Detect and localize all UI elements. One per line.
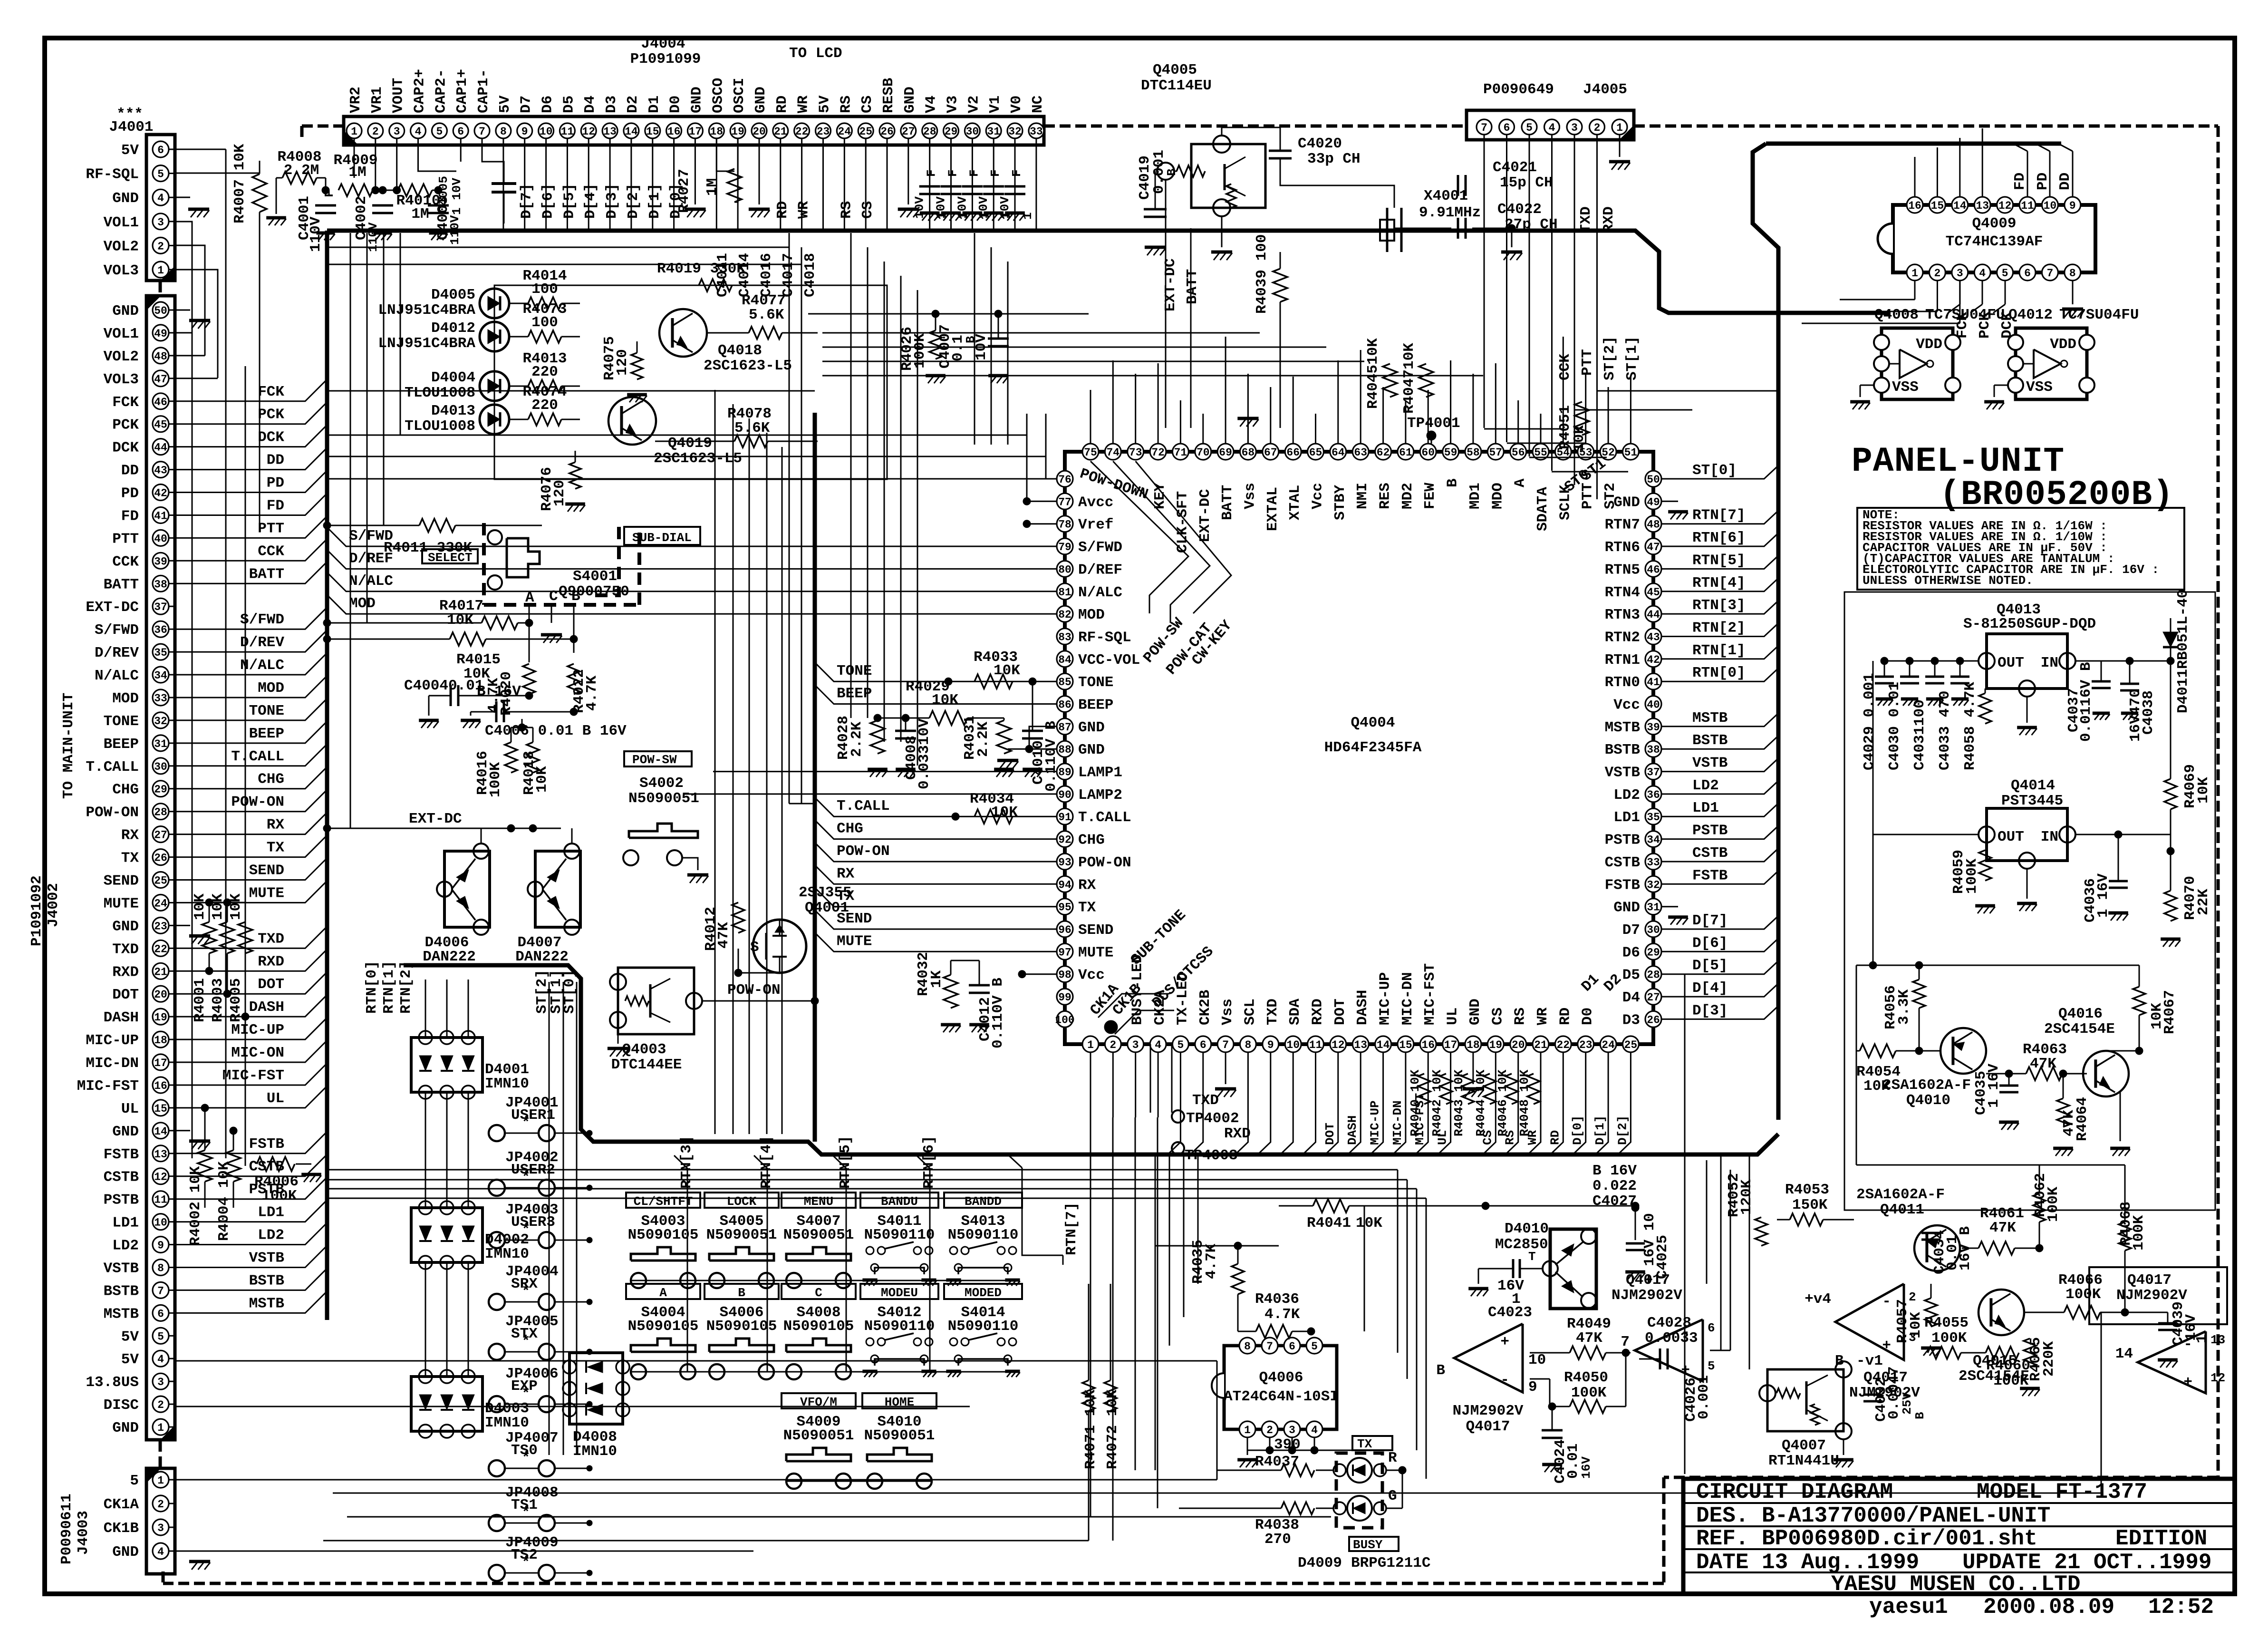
J4004 pin 12 D4 (581, 123, 596, 138)
svg-text:31: 31 (987, 126, 1000, 138)
wire net RTN[2] (1661, 623, 1778, 637)
svg-text:TLOU1008: TLOU1008 (405, 385, 475, 401)
svg-text:UL: UL (267, 1090, 284, 1107)
svg-text:F: F (1010, 169, 1024, 177)
svg-text:J4004: J4004 (641, 36, 685, 52)
svg-text:10: 10 (1286, 1039, 1300, 1051)
wire J4004 drop (673, 138, 675, 229)
wire J4005 drop (1574, 135, 1575, 485)
svg-text:38: 38 (154, 578, 167, 591)
svg-text:12: 12 (1998, 200, 2012, 212)
svg-text:F: F (988, 169, 1003, 177)
svg-text:GND: GND (688, 87, 705, 113)
Q4004 pin 90 (1057, 786, 1073, 802)
svg-text:POW-SW: POW-SW (632, 753, 677, 767)
svg-text:HD64F2345FA: HD64F2345FA (1324, 739, 1422, 756)
wire net LD1 (1661, 803, 1778, 816)
svg-text:TO LCD: TO LCD (789, 45, 842, 62)
svg-text:220: 220 (531, 364, 558, 380)
J4002 pin 9 LD2 (153, 1237, 169, 1253)
svg-text:LD1: LD1 (1692, 800, 1719, 816)
svg-text:68: 68 (1242, 446, 1255, 459)
wire J4004 drop (887, 138, 888, 229)
svg-text:30: 30 (154, 761, 167, 773)
ground Q4016 emitter (2120, 1091, 2121, 1141)
svg-text:11: 11 (154, 1194, 167, 1206)
svg-text:MOD: MOD (258, 680, 284, 697)
svg-text:47K: 47K (715, 922, 732, 949)
svg-text:5V: 5V (121, 1329, 139, 1345)
svg-text:18: 18 (1467, 1039, 1480, 1051)
Q4006 pin 2 (1262, 1421, 1278, 1437)
wire CAP2+ (418, 138, 457, 171)
wire J4004 drop (652, 138, 653, 229)
svg-text:-: - (1500, 1372, 1509, 1388)
svg-text:Q4018: Q4018 (718, 342, 762, 359)
svg-text:MIC-FST: MIC-FST (1422, 963, 1438, 1025)
wire Q4004 pin 73 up (1135, 374, 1136, 444)
svg-text:1: 1 (1021, 212, 1035, 220)
svg-text:7: 7 (1621, 1334, 1630, 1350)
svg-text:D6: D6 (1622, 944, 1640, 961)
svg-text:D4013: D4013 (431, 403, 475, 419)
J4002 pin 15 UL (153, 1100, 169, 1116)
svg-text:5.6K: 5.6K (749, 307, 784, 323)
Q4006 pin 6 (1284, 1338, 1300, 1354)
wire net D/REV to left bus (175, 630, 327, 652)
svg-text:98: 98 (1058, 969, 1071, 981)
transistor Q4003 DTC144EE (618, 968, 694, 1034)
wire J4004 drop (972, 138, 973, 229)
svg-text:Q4017: Q4017 (2127, 1272, 2171, 1289)
Q4009 pin 2 (1929, 264, 1945, 281)
svg-text:D4004: D4004 (431, 369, 475, 386)
wire net TX (815, 888, 1057, 907)
switch S4007 MENU (782, 1193, 856, 1208)
svg-text:BATT: BATT (1184, 269, 1201, 304)
svg-text:BANDU: BANDU (881, 1194, 918, 1209)
wire net MOD to left bus (175, 676, 327, 698)
svg-text:D[3]: D[3] (604, 184, 620, 219)
svg-text:D/REV: D/REV (240, 634, 284, 651)
svg-text:0.03310V: 0.03310V (916, 718, 933, 789)
wire net SEND (815, 910, 1057, 929)
svg-text:14: 14 (1377, 1039, 1390, 1051)
svg-text:1 10V: 1 10V (450, 178, 464, 215)
svg-text:16: 16 (154, 1080, 167, 1092)
J4004 pin 14 D2 (624, 123, 639, 138)
Q4004 pin 66 (1285, 444, 1301, 460)
wire J4005 drop (1551, 135, 1553, 471)
svg-text:FD: FD (267, 498, 284, 514)
wire net S/FWD (327, 527, 1057, 546)
svg-text:LNJ951C4BRA: LNJ951C4BRA (378, 302, 475, 319)
svg-text:28: 28 (923, 126, 936, 138)
svg-text:B: B (1436, 1362, 1445, 1379)
svg-text:16V: 16V (1579, 1456, 1593, 1479)
svg-text:94: 94 (1058, 879, 1071, 891)
Q4004 pin 34 (1645, 831, 1661, 847)
wire net TX to left bus (175, 835, 327, 857)
Q4004 pin 3 (1128, 1036, 1144, 1052)
J4004 pin 9 D7 (517, 123, 532, 138)
Q4004 pin 21 (1533, 1036, 1549, 1052)
wire power rail opamp (1402, 1205, 1635, 1207)
svg-text:N/ALC: N/ALC (1078, 584, 1122, 601)
svg-text:B 16V: B 16V (477, 683, 521, 700)
ground J4003 (175, 1551, 190, 1552)
svg-text:C4031100: C4031100 (1911, 699, 1928, 770)
svg-text:S4001: S4001 (573, 568, 617, 585)
svg-text:MSTB: MSTB (249, 1295, 284, 1312)
Q4004 pin 91 (1057, 808, 1073, 824)
diode bridge D4007 DAN222 (535, 851, 580, 927)
svg-text:RT1N441U: RT1N441U (1768, 1453, 1839, 1469)
svg-text:2: 2 (157, 1399, 164, 1411)
svg-text:10: 10 (540, 126, 553, 138)
svg-text:23: 23 (1579, 1039, 1592, 1051)
wire J4001 5V (175, 149, 226, 150)
resistor R4007 10K (252, 174, 267, 212)
switch S4003 CL/SHTFT (626, 1193, 700, 1208)
svg-text:BSTB: BSTB (1605, 742, 1640, 758)
svg-text:TO MAIN-UNIT: TO MAIN-UNIT (60, 693, 77, 799)
svg-text:RS: RS (838, 96, 854, 113)
svg-text:76: 76 (1058, 474, 1071, 486)
svg-text:MDO: MDO (1489, 483, 1506, 509)
svg-text:MIC-DN: MIC-DN (1390, 1100, 1405, 1145)
resistor R4001 10K (202, 922, 216, 953)
svg-text:100K: 100K (2065, 1286, 2101, 1303)
Q4004 pin 38 (1645, 741, 1661, 757)
svg-text:NJM2902V: NJM2902V (1612, 1287, 1682, 1304)
top right bus (heavy) (1766, 142, 2061, 146)
svg-text:D4012: D4012 (431, 320, 475, 337)
svg-text:*: * (521, 1504, 531, 1521)
ground Q4008 (1860, 385, 1874, 386)
J4002 pin 24 MUTE (153, 894, 169, 911)
svg-text:25V: 25V (1900, 1392, 1914, 1415)
svg-text:D[2]: D[2] (1615, 1115, 1630, 1145)
svg-text:Q4007: Q4007 (1782, 1437, 1826, 1454)
svg-text:RX: RX (121, 827, 139, 844)
svg-text:BEEP: BEEP (104, 736, 139, 753)
svg-text:PSTB: PSTB (1605, 832, 1640, 849)
svg-text:42: 42 (1647, 654, 1660, 666)
wire Q4004 pin 60 up (1428, 390, 1429, 444)
wire Q4004 pin 57 up (1495, 363, 1496, 444)
svg-text:IMN10: IMN10 (485, 1246, 529, 1262)
svg-text:1: 1 (1911, 267, 1918, 280)
wire net RTN[4] (1661, 578, 1778, 592)
svg-text:TXD: TXD (112, 941, 139, 958)
J4002 pin 14 GND (153, 1123, 169, 1139)
svg-text:LAMP2: LAMP2 (1078, 787, 1122, 804)
svg-text:VR1: VR1 (369, 87, 386, 113)
Q4004 pin 54 (1555, 444, 1571, 460)
capacitor C4023 1 16V T (1512, 1259, 1515, 1278)
svg-text:RTN6: RTN6 (1605, 539, 1640, 556)
wire net CSTB (1661, 848, 1778, 862)
Q4004 pin 44 (1645, 606, 1661, 622)
svg-text:R4067: R4067 (2162, 990, 2178, 1034)
svg-text:Q4009: Q4009 (1972, 215, 2016, 232)
svg-text:MSTB: MSTB (1605, 719, 1640, 736)
svg-text:120K: 120K (1738, 1179, 1755, 1215)
svg-text:PSTB: PSTB (104, 1192, 139, 1209)
junction dots misc (323, 522, 331, 529)
Q4004 pin 5 (1172, 1036, 1188, 1052)
svg-text:CHG: CHG (837, 821, 863, 837)
svg-text:MODEU: MODEU (881, 1286, 918, 1300)
svg-text:9: 9 (2069, 200, 2076, 212)
Q4004 pin 23 (1578, 1036, 1594, 1052)
svg-text:DOT: DOT (1323, 1123, 1337, 1145)
Q4004 pin 8 (1240, 1036, 1256, 1052)
resistor R4044 10K (1484, 1074, 1496, 1104)
svg-text:RTN3: RTN3 (1605, 607, 1640, 623)
J4002 pin 47 VOL3 (153, 370, 169, 387)
svg-text:UPDATE 21 OCT..1999: UPDATE 21 OCT..1999 (1962, 1550, 2212, 1575)
svg-text:XTAL: XTAL (1287, 485, 1303, 520)
wire net PSTB to left bus (175, 1177, 327, 1199)
svg-text:D[6]: D[6] (1692, 935, 1728, 951)
svg-text:N5090051: N5090051 (783, 1227, 854, 1243)
svg-text:42: 42 (154, 487, 167, 500)
J4002 pin 42 PD (153, 485, 169, 501)
svg-text:47K: 47K (1989, 1220, 2016, 1236)
svg-text:C4029 0.001: C4029 0.001 (1861, 673, 1878, 770)
svg-text:4: 4 (1155, 1039, 1161, 1051)
wire J4001 VOL3 (175, 270, 218, 378)
svg-text:120: 120 (614, 349, 631, 376)
wire Q4004 pin 74 up (1112, 360, 1114, 444)
svg-text:C4030 0.01: C4030 0.01 (1886, 682, 1903, 770)
resistor R4041 10K (1313, 1199, 1349, 1212)
J4002 pin 46 FCK (153, 393, 169, 409)
svg-text:IN: IN (2041, 829, 2058, 845)
svg-text:6: 6 (157, 144, 164, 156)
switch S4013 BANDD (944, 1193, 1022, 1208)
svg-text:4: 4 (157, 192, 164, 204)
svg-text:17: 17 (154, 1057, 167, 1069)
svg-text:5: 5 (436, 126, 443, 138)
svg-text:R4040 10K: R4040 10K (1408, 1069, 1422, 1136)
svg-text:PD: PD (121, 485, 139, 502)
svg-text:R4019 330K: R4019 330K (657, 261, 745, 277)
svg-text:VR2: VR2 (347, 87, 364, 113)
transistor Q4010 2SA1602A-F (1940, 1028, 1986, 1074)
svg-text:MSTB: MSTB (1692, 710, 1728, 727)
switch S4010 HOME (862, 1393, 936, 1408)
svg-text:MIC-ON: MIC-ON (231, 1045, 284, 1061)
svg-text:S: S (750, 939, 759, 956)
svg-text:VDD: VDD (2050, 336, 2076, 353)
svg-text:R4055: R4055 (1924, 1315, 1969, 1331)
svg-text:10K: 10K (447, 612, 473, 629)
wire Q4004 pin 12 down (1326, 1052, 1338, 1154)
svg-text:Vss: Vss (1242, 483, 1258, 509)
svg-text:TXD: TXD (1578, 206, 1594, 233)
svg-text:10: 10 (154, 1217, 167, 1229)
svg-text:DTC144EE: DTC144EE (611, 1057, 682, 1073)
J4005 pin 5 (1522, 119, 1537, 135)
svg-text:220: 220 (531, 397, 558, 414)
wire J4004 drop (545, 138, 547, 229)
svg-text:100: 100 (1055, 1014, 1074, 1026)
svg-text:VOUT: VOUT (390, 78, 407, 113)
svg-text:A: A (659, 1286, 667, 1300)
svg-text:2: 2 (372, 126, 379, 138)
svg-text:LD2: LD2 (1692, 777, 1719, 794)
wire Q4016 collector up (2106, 1050, 2139, 1052)
svg-text:30: 30 (1647, 924, 1660, 936)
svg-text:V2: V2 (965, 96, 982, 113)
svg-text:RTN0: RTN0 (1605, 674, 1640, 691)
svg-text:FSTB: FSTB (1605, 877, 1640, 893)
Q4004 pin 11 (1308, 1036, 1324, 1052)
svg-text:LD1: LD1 (1613, 809, 1640, 826)
wire net MIC-FST to left bus (175, 1063, 327, 1085)
svg-text:1: 1 (1244, 1424, 1251, 1436)
svg-text:43: 43 (1647, 631, 1660, 644)
Q4009 pin 4 (1974, 264, 1990, 281)
wire net DCK to left bus (175, 425, 327, 447)
svg-text:R4043 10K: R4043 10K (1452, 1069, 1466, 1136)
svg-text:T: T (1528, 1250, 1536, 1264)
wire net CSTB to left bus (175, 1154, 327, 1176)
Q4009 pin 3 (1952, 264, 1968, 281)
svg-text:D[3]: D[3] (1692, 1002, 1728, 1019)
dashed boundary bottom (163, 1582, 1664, 1585)
wire net RTN[7] (1661, 511, 1778, 524)
svg-text:Q4019: Q4019 (668, 435, 712, 452)
svg-text:13: 13 (603, 126, 617, 138)
wire Q4004 pin 9 down (1258, 1052, 1271, 1154)
J4004 pin 29 V3 (944, 123, 959, 138)
svg-text:DASH: DASH (1354, 990, 1371, 1025)
wire net PSTB (1661, 826, 1778, 839)
wire J4004 drop (780, 138, 781, 229)
right signal bus (heavy) (1753, 144, 1778, 1120)
wire Q4004 pin 5 down (1168, 1052, 1180, 1154)
wire net TONE to left bus (175, 698, 327, 720)
svg-text:TP4003: TP4003 (1185, 1147, 1238, 1164)
switch S4014 MODED (944, 1284, 1022, 1299)
J4004 pin 24 RS (837, 123, 852, 138)
capacitor C4010 0.1 10V B (1022, 730, 1043, 732)
resistor R4005 10K (238, 922, 252, 953)
svg-text:CAP2+: CAP2+ (412, 69, 428, 113)
svg-text:D[6]: D[6] (540, 184, 557, 219)
svg-text:T.CALL: T.CALL (1078, 809, 1131, 826)
svg-text:R4044 10K: R4044 10K (1474, 1069, 1488, 1136)
Q4004 pin 80 (1057, 561, 1073, 577)
capacitor C4012 0.1 10V B (969, 984, 990, 987)
LED indicator block D4009 (1336, 1453, 1382, 1528)
svg-text:29: 29 (945, 126, 958, 138)
wire net MIC-ON to left bus (175, 1040, 327, 1062)
wire net FSTB to left bus (175, 1132, 327, 1154)
svg-text:100K: 100K (2131, 1215, 2147, 1251)
svg-text:TXD: TXD (1264, 999, 1281, 1025)
svg-text:DOT: DOT (258, 976, 284, 993)
svg-text:77: 77 (1058, 496, 1071, 508)
svg-text:RD: RD (1557, 1008, 1573, 1025)
svg-text:SELECT: SELECT (428, 551, 473, 565)
Q4004 pin 51 (1622, 444, 1639, 460)
svg-text:D7: D7 (1622, 922, 1640, 939)
switch S4004 A (626, 1284, 700, 1299)
svg-text:R4004 10K: R4004 10K (216, 1161, 232, 1241)
Q4009 pin 10 (2042, 197, 2058, 213)
connector J4003 (146, 1468, 175, 1574)
svg-text:STBY: STBY (1332, 485, 1349, 520)
svg-text:Q4017: Q4017 (1466, 1418, 1510, 1435)
svg-text:D[7]: D[7] (519, 184, 535, 219)
svg-text:33: 33 (1030, 126, 1043, 138)
J4003 pin 2 CK1A (153, 1495, 169, 1512)
svg-text:25: 25 (1624, 1039, 1638, 1051)
svg-text:R4058 4.7K: R4058 4.7K (1962, 682, 1978, 770)
Q4004 pin 49 (1645, 493, 1661, 509)
wire J4004 drop (844, 138, 845, 229)
Q4004 pin 63 (1352, 444, 1369, 460)
wire net MSTB (1661, 713, 1778, 727)
svg-text:100K: 100K (1571, 1385, 1607, 1401)
svg-text:MIC-FST: MIC-FST (77, 1078, 139, 1095)
Q4004 pin 94 (1057, 876, 1073, 892)
svg-text:PTT: PTT (1579, 349, 1596, 376)
wire J4005 drop (1484, 135, 1485, 428)
svg-text:N5090051: N5090051 (628, 790, 699, 807)
capacitor C4020 33p CH (1269, 150, 1292, 152)
svg-text:7: 7 (1266, 1340, 1273, 1353)
J4002 pin 36 S/FWD (153, 621, 169, 637)
capacitor V2 filter (962, 185, 983, 188)
svg-text:DAN222: DAN222 (423, 949, 476, 965)
svg-text:R4007 10K: R4007 10K (232, 144, 248, 223)
svg-text:N5090110: N5090110 (864, 1318, 935, 1335)
ground J4004 (695, 138, 696, 204)
J4001 pin 4 GND (153, 189, 169, 205)
wire J4004 drop (950, 138, 952, 229)
svg-text:10V: 10V (955, 196, 969, 219)
wire net BSTB to left bus (175, 1268, 327, 1290)
wire net RX (815, 865, 1057, 884)
svg-text:C4033 470: C4033 470 (1937, 691, 1953, 770)
wire J4004 drop (1035, 138, 1037, 229)
svg-text:DISC: DISC (104, 1397, 139, 1414)
J4004 pin 32 V0 (1007, 123, 1023, 138)
resistor R4006 100K (257, 1157, 295, 1171)
wire net SEND to left bus (175, 858, 327, 880)
svg-text:Vref: Vref (1078, 517, 1113, 533)
svg-text:RD: RD (774, 96, 791, 113)
svg-text:86: 86 (1058, 699, 1071, 711)
svg-text:D4009: D4009 (1298, 1555, 1342, 1571)
svg-text:2.2K: 2.2K (975, 721, 992, 757)
ground Q4012 (1994, 385, 2008, 386)
svg-text:DOT: DOT (1332, 999, 1349, 1025)
Q4004 pin 81 (1057, 583, 1073, 600)
svg-text:9: 9 (157, 1240, 164, 1252)
svg-text:S/FWD: S/FWD (240, 611, 284, 628)
ground R4006 (296, 1164, 311, 1165)
Q4006 pin 3 (1284, 1421, 1300, 1437)
resistor R4040 10K (1418, 1074, 1430, 1104)
ground Q4007 (1843, 1439, 1844, 1455)
